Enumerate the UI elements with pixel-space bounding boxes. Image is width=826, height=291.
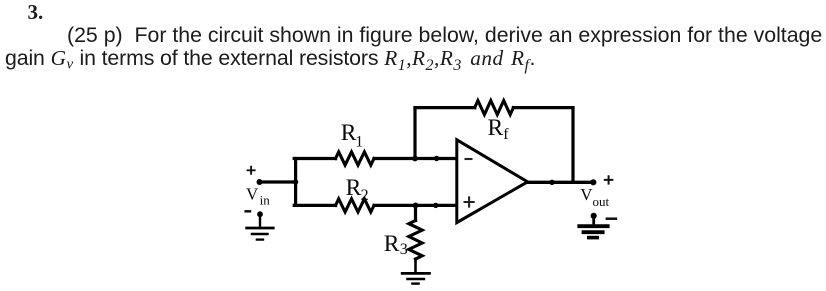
label Rf <box>488 115 510 143</box>
node junction R2/R3 <box>413 203 419 209</box>
wire R1 branch left <box>294 157 335 160</box>
wire R2 to op-amp non-inverting input <box>374 204 457 207</box>
svg-text:3: 3 <box>400 241 408 258</box>
node junction R1/feedback <box>412 156 418 162</box>
resistor Rf <box>475 101 514 115</box>
wire feedback top left segment <box>415 106 475 109</box>
node Vout terminal <box>590 179 596 185</box>
resistor R2 <box>336 199 375 212</box>
svg-text:1: 1 <box>355 134 363 151</box>
ground (R3) <box>401 273 431 283</box>
svg-text:out: out <box>593 194 610 209</box>
wire R3 top stub <box>414 205 417 220</box>
svg-text:2: 2 <box>361 187 369 204</box>
svg-text:R: R <box>384 231 400 257</box>
svg-text:in: in <box>260 193 271 208</box>
node dot Vout- terminal <box>591 213 597 219</box>
node dot at inverting input <box>434 156 439 161</box>
node dot Vin- terminal <box>257 211 263 217</box>
label Vout with polarity <box>580 175 617 219</box>
label R3 <box>384 231 408 258</box>
node junction Vin wire / input bus <box>293 179 298 184</box>
wire feedback vertical at inverting input <box>413 108 416 159</box>
problem number 3. <box>28 2 44 23</box>
node dot on output wire <box>549 180 554 185</box>
wire feedback down to output <box>571 108 574 183</box>
paragraph line 2 <box>5 47 535 77</box>
svg-text:R: R <box>488 115 504 141</box>
node dot Vin+ terminal <box>257 179 263 185</box>
wire R2 branch left <box>294 204 335 207</box>
label R1 <box>341 120 364 151</box>
wire R3 bottom stub <box>414 259 417 272</box>
wire Vin+ to input bus <box>260 180 296 183</box>
resistor R1 <box>336 152 375 165</box>
wire input bus vertical <box>294 159 297 206</box>
node dot at non-inverting input <box>433 203 438 208</box>
label Vin with polarity <box>244 166 270 212</box>
paragraph line 1 <box>67 24 822 46</box>
wire R1 to op-amp inverting input <box>374 157 457 160</box>
svg-text:R: R <box>346 175 362 201</box>
label R2 <box>346 175 369 204</box>
op-amp U1 <box>457 140 528 223</box>
wire op-amp output <box>528 181 594 184</box>
svg-text:V: V <box>580 185 593 204</box>
ground (Vout) <box>577 216 609 238</box>
ground (Vin) <box>245 214 274 239</box>
svg-text:f: f <box>503 126 509 143</box>
resistor R3 <box>409 221 422 260</box>
wire feedback top right segment <box>513 106 573 109</box>
svg-text:V: V <box>246 185 259 204</box>
